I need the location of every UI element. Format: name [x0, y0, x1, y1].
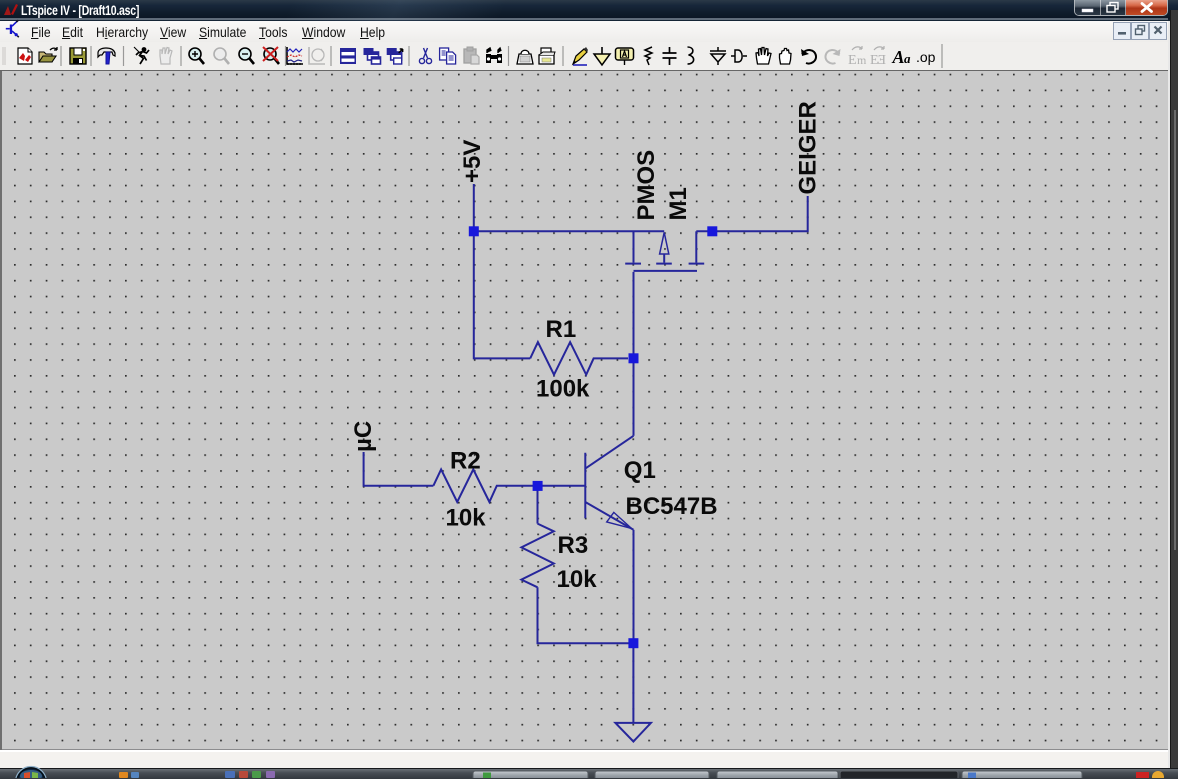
svg-text:R3: R3 [558, 532, 589, 559]
transistor Q1 (NPN BC547B) [585, 436, 633, 530]
icon component [731, 50, 747, 62]
icon tile vertically [387, 48, 403, 64]
node M1 drain junction [707, 226, 717, 236]
icon cut [419, 48, 431, 64]
node R2 R3 base junction [533, 481, 543, 491]
svg-text:10k: 10k [446, 504, 487, 531]
svg-text:m: m [857, 53, 867, 67]
icon open [39, 47, 57, 62]
icon zoom out [239, 48, 254, 64]
icon rotate (disabled) [870, 46, 886, 68]
wire R2 node down to R3 [537, 486, 539, 524]
icon ground symbol [594, 47, 610, 65]
icon mirror (disabled) [848, 46, 867, 68]
icon net label [616, 48, 634, 65]
icon inductor [688, 47, 694, 64]
svg-text:PMOS: PMOS [633, 150, 660, 221]
icon new schematic [18, 48, 32, 64]
svg-text:E: E [870, 53, 879, 68]
icon control panel hammer [98, 48, 115, 64]
resistor R2 [433, 469, 537, 502]
svg-text:10k: 10k [557, 566, 598, 593]
icon print [539, 48, 555, 64]
icon redo (disabled) [825, 49, 840, 64]
icon move hand [756, 48, 771, 65]
wire R2 from uC [364, 452, 434, 486]
wire top rail horizontal to M1 source [474, 230, 664, 232]
resistor R1 [530, 342, 628, 375]
svg-text:R2: R2 [450, 448, 481, 475]
icon diode [710, 47, 726, 65]
wire R2 node to Q1 base [538, 485, 586, 487]
wire R1 node to M1 gate [633, 272, 635, 358]
icon paste (disabled) [464, 47, 479, 64]
svg-text:GEIGER: GEIGER [795, 101, 822, 194]
task buttons [473, 771, 588, 779]
wire M1 drain to GEIGER [696, 196, 807, 231]
svg-text:A: A [892, 47, 905, 67]
wire R3 bottom to emitter node [538, 587, 634, 643]
svg-text:E: E [848, 53, 857, 68]
svg-text:+5V: +5V [459, 140, 486, 183]
svg-text:Q1: Q1 [624, 457, 656, 484]
icon plot settings (disabled) [309, 47, 325, 64]
icon cascade windows [364, 48, 381, 64]
icon waveform [287, 47, 303, 65]
toolbar gripper [3, 47, 5, 65]
icon resistor [645, 47, 652, 65]
wire +5V rail vertical [473, 184, 475, 231]
node emitter R3 junction [628, 638, 638, 648]
icon zoom extents [263, 47, 279, 64]
wire +5V node down to R1 [474, 231, 530, 358]
icon find [486, 48, 502, 63]
icon print setup [517, 50, 533, 64]
svg-text:.op: .op [916, 49, 936, 65]
svg-text:E: E [877, 53, 886, 68]
svg-text:BC547B: BC547B [626, 493, 718, 520]
svg-text:100k: 100k [536, 375, 590, 402]
resistor R3 [521, 524, 553, 588]
icon spice directive .op [916, 49, 936, 65]
icon halt hand (disabled) [160, 48, 172, 65]
node R1 gate collector junction [629, 353, 639, 363]
node +5V junction [469, 226, 479, 236]
svg-text:µC: µC [350, 421, 377, 452]
svg-text:R1: R1 [546, 316, 577, 343]
svg-text:M1: M1 [665, 187, 692, 220]
icon undo [801, 49, 816, 64]
icon drag hand [780, 49, 792, 65]
quicklaunch icons [119, 772, 128, 778]
icon zoom back (disabled) [214, 48, 229, 64]
transistor M1 (PMOS) [625, 231, 704, 271]
icon tile horizontally [340, 48, 356, 64]
icon copy [440, 48, 456, 64]
ground [615, 723, 651, 742]
icon run [134, 47, 149, 64]
icon text Aa [892, 47, 912, 67]
wire Q1 collector to R1 node [633, 358, 635, 436]
icon save [70, 48, 86, 64]
start orb [16, 767, 47, 779]
wire emitter node to ground [632, 643, 634, 723]
icon wire pencil [573, 47, 588, 65]
icon capacitor [663, 47, 677, 65]
tray [1136, 772, 1149, 778]
icon zoom in [189, 48, 204, 64]
wire Q1 emitter down [633, 530, 635, 643]
svg-text:a: a [904, 51, 911, 66]
